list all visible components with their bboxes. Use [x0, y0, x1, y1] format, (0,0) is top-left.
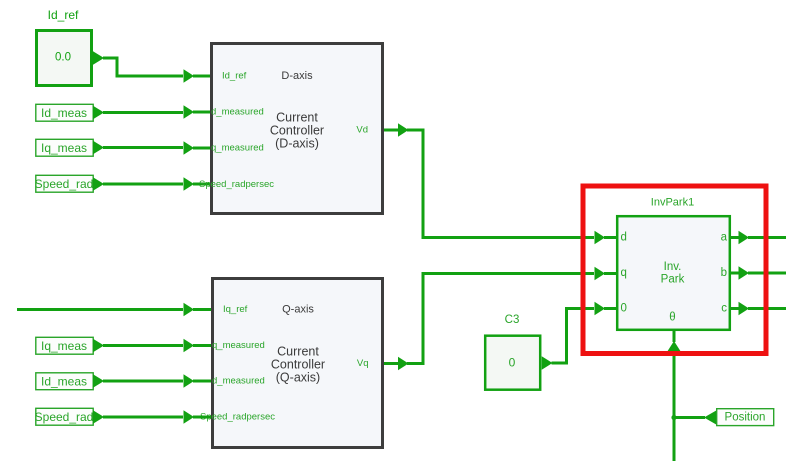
svg-text:Position: Position [725, 411, 766, 423]
svg-text:Id_ref: Id_ref [222, 71, 247, 82]
svg-text:Controller: Controller [271, 358, 325, 372]
svg-text:Iq_meas: Iq_meas [41, 339, 87, 353]
svg-text:(Q-axis): (Q-axis) [276, 371, 320, 385]
svg-text:a: a [721, 232, 728, 244]
svg-text:Id_meas: Id_meas [41, 106, 87, 120]
svg-text:b: b [721, 267, 727, 279]
svg-text:θ: θ [669, 312, 675, 324]
svg-text:q_measured: q_measured [211, 143, 264, 154]
svg-text:Iq_meas: Iq_meas [41, 141, 87, 155]
svg-text:d_measured: d_measured [211, 107, 264, 118]
svg-text:Current: Current [277, 345, 319, 359]
svg-text:d: d [621, 232, 627, 244]
svg-text:(D-axis): (D-axis) [275, 137, 319, 151]
svg-text:Speed_radpersec: Speed_radpersec [199, 179, 274, 190]
svg-text:q: q [621, 267, 627, 279]
svg-text:Speed_rad: Speed_rad [35, 410, 94, 424]
svg-text:c: c [721, 303, 727, 315]
svg-text:0: 0 [509, 356, 516, 370]
svg-text:InvPark1: InvPark1 [651, 197, 694, 209]
svg-text:Park: Park [661, 274, 685, 286]
svg-text:d_measured: d_measured [212, 376, 265, 387]
svg-text:Controller: Controller [270, 124, 324, 138]
svg-text:Speed_radpersec: Speed_radpersec [200, 412, 275, 423]
svg-text:C3: C3 [505, 314, 520, 326]
svg-text:0.0: 0.0 [55, 52, 71, 64]
svg-text:Id_ref: Id_ref [48, 8, 79, 22]
svg-text:Speed_rad: Speed_rad [35, 177, 94, 191]
svg-text:Current: Current [276, 111, 318, 125]
svg-text:Inv.: Inv. [664, 261, 682, 273]
svg-text:Iq_ref: Iq_ref [223, 304, 248, 315]
svg-text:Id_meas: Id_meas [41, 375, 87, 389]
svg-text:0: 0 [621, 303, 627, 315]
svg-text:Vd: Vd [356, 125, 368, 136]
svg-text:Q-axis: Q-axis [282, 304, 314, 316]
svg-text:q_measured: q_measured [212, 340, 265, 351]
svg-text:Vq: Vq [357, 358, 369, 369]
svg-text:D-axis: D-axis [281, 70, 313, 82]
